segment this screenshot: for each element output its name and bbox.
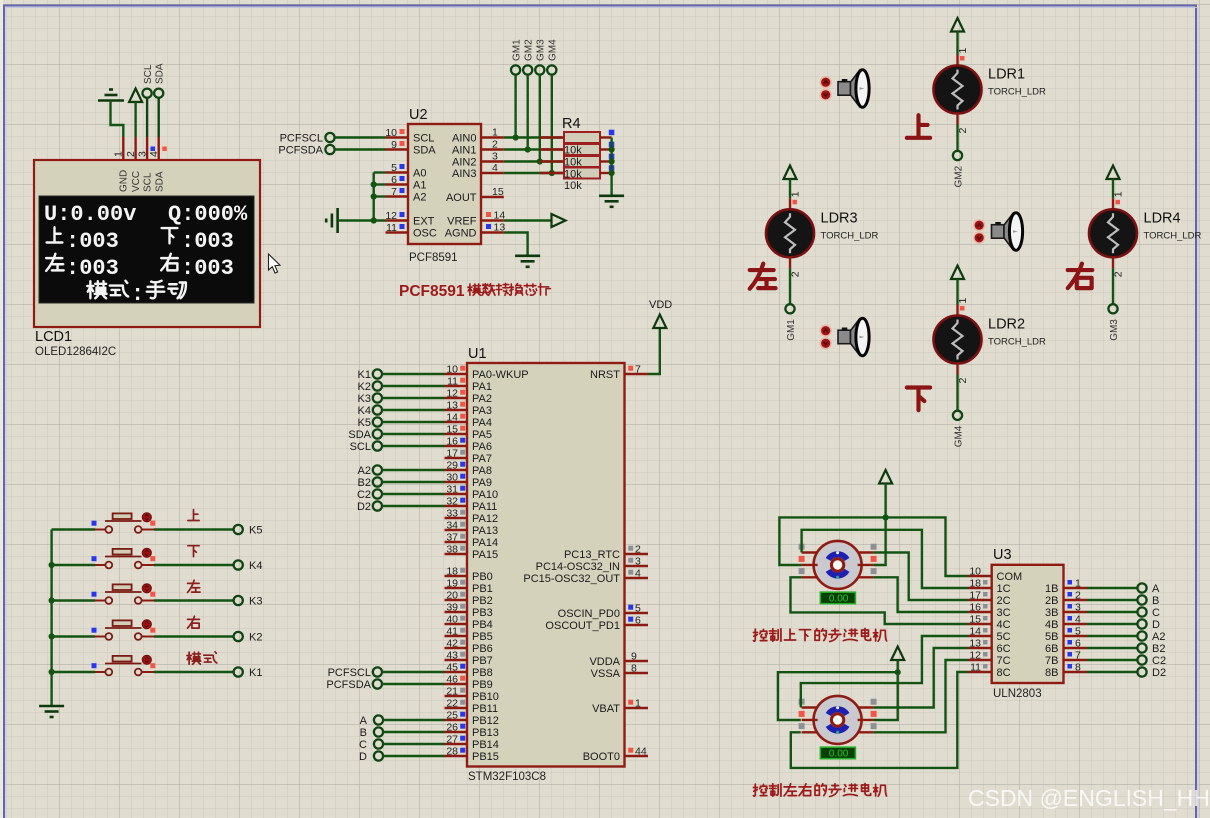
terminal B	[1137, 595, 1146, 604]
wire 4B to terminal D	[1087, 623, 1137, 625]
mouse cursor	[269, 254, 281, 273]
svg-text:19: 19	[446, 578, 458, 590]
junction bus K3	[49, 597, 55, 603]
svg-text:Q:000%: Q:000%	[168, 202, 248, 227]
svg-text:4: 4	[635, 568, 641, 580]
svg-text:15: 15	[446, 424, 458, 436]
svg-text:8: 8	[631, 663, 637, 675]
svg-text:GM2: GM2	[524, 39, 535, 61]
svg-text:TORCH_LDR: TORCH_LDR	[821, 230, 879, 241]
svg-text:1: 1	[492, 127, 498, 139]
svg-text:25: 25	[446, 710, 458, 722]
label button chinese	[188, 580, 201, 592]
svg-text:AIN1: AIN1	[452, 145, 476, 157]
svg-text:SCL: SCL	[413, 133, 434, 145]
wire vdd to LDR3	[789, 179, 791, 198]
svg-text:AIN3: AIN3	[452, 168, 476, 180]
svg-text:PA0-WKUP: PA0-WKUP	[472, 369, 529, 381]
svg-text:K3: K3	[249, 596, 262, 608]
svg-text:2: 2	[1075, 590, 1081, 602]
svg-text:30: 30	[446, 472, 458, 484]
svg-text:2: 2	[1113, 271, 1125, 277]
label button chinese	[188, 616, 200, 628]
U2 right pin stubs	[481, 136, 504, 138]
svg-text:17: 17	[446, 448, 458, 460]
wire 5B to terminal A2	[1087, 635, 1137, 637]
svg-text:B: B	[360, 727, 367, 739]
torch lens	[856, 318, 869, 356]
svg-text:PA14: PA14	[472, 537, 498, 549]
svg-text:5C: 5C	[997, 631, 1011, 643]
svg-text:AIN0: AIN0	[452, 133, 476, 145]
svg-text:B2: B2	[1152, 643, 1165, 655]
wire motor2 C to 7C	[874, 660, 968, 732]
IC U1 STM32F103C8 body	[467, 363, 625, 767]
junction A1	[371, 181, 377, 187]
torch lens	[856, 70, 869, 108]
photoresistor LDR3 body	[766, 209, 814, 257]
svg-text:0.00: 0.00	[829, 749, 849, 760]
LDR2 pin2 stub	[956, 363, 958, 375]
svg-text:K2: K2	[249, 632, 262, 644]
U3 right pin stubs	[1064, 587, 1088, 589]
wire 3B to terminal C	[1087, 611, 1137, 613]
svg-text:PCFSDA: PCFSDA	[326, 679, 371, 691]
wire motor1 C to 3C	[874, 577, 968, 612]
svg-text:PB7: PB7	[472, 655, 493, 667]
ground (U2 AGND)	[515, 256, 540, 267]
svg-text:OSCIN_PD0: OSCIN_PD0	[558, 608, 620, 620]
svg-text:18: 18	[969, 578, 981, 590]
svg-text:PB6: PB6	[472, 643, 493, 655]
svg-text::003: :003	[66, 256, 119, 281]
svg-text:5B: 5B	[1045, 631, 1058, 643]
svg-text:6C: 6C	[997, 643, 1011, 655]
svg-text::003: :003	[66, 229, 119, 254]
svg-text:LDR1: LDR1	[988, 67, 1025, 83]
svg-text:16: 16	[969, 602, 981, 614]
svg-text:21: 21	[446, 686, 458, 698]
svg-text:COM: COM	[997, 571, 1023, 583]
svg-text:11: 11	[386, 222, 397, 234]
svg-text:LCD1: LCD1	[35, 329, 72, 345]
wire vdd2 down to motor2 common right	[874, 660, 898, 720]
svg-text:6: 6	[1075, 638, 1081, 650]
terminal A	[1137, 583, 1146, 592]
svg-text:4: 4	[148, 151, 160, 157]
button K1 row	[92, 655, 156, 675]
svg-text:PA12: PA12	[472, 513, 498, 525]
svg-text:3: 3	[492, 151, 498, 163]
svg-text:A2: A2	[413, 192, 426, 204]
terminal C	[1137, 607, 1146, 616]
svg-text:U2: U2	[409, 107, 428, 123]
svg-text:PB15: PB15	[472, 751, 499, 763]
svg-text:PA3: PA3	[472, 405, 492, 417]
LCD screen text line1	[44, 202, 248, 227]
svg-text:0.00: 0.00	[829, 594, 849, 605]
terminal GM3	[1108, 304, 1117, 313]
svg-text:27: 27	[446, 734, 458, 746]
svg-text:1C: 1C	[997, 583, 1011, 595]
stepper motor body	[814, 696, 862, 744]
svg-text:12: 12	[385, 210, 397, 222]
svg-text:3: 3	[1075, 602, 1081, 614]
wire button K4 to terminal	[154, 564, 234, 566]
svg-text:6B: 6B	[1045, 643, 1058, 655]
svg-text:20: 20	[446, 590, 458, 602]
svg-text:U3: U3	[993, 547, 1012, 563]
svg-text:5: 5	[391, 162, 397, 174]
wire button common bus	[50, 530, 52, 706]
svg-text:A2: A2	[358, 465, 371, 477]
svg-text:PCF8591: PCF8591	[409, 252, 458, 264]
svg-text:2: 2	[635, 544, 641, 556]
terminal A2	[1137, 631, 1146, 640]
svg-text:SDA: SDA	[154, 171, 165, 192]
svg-text:2: 2	[790, 271, 802, 277]
svg-text:10: 10	[446, 364, 458, 376]
wire 7B to terminal C2	[1087, 659, 1137, 661]
terminal GM4	[953, 411, 962, 420]
svg-text:VCC: VCC	[131, 171, 142, 192]
svg-text:GM3: GM3	[1109, 319, 1120, 341]
svg-text:SCL: SCL	[143, 172, 154, 192]
svg-text:10k: 10k	[564, 169, 582, 181]
svg-text:7: 7	[1075, 650, 1081, 662]
svg-text:4C: 4C	[997, 619, 1011, 631]
wire button K3 left to bus	[52, 599, 95, 601]
motor pin stubs	[802, 551, 818, 553]
U1 left terminals A B C D	[374, 715, 383, 724]
svg-text:PCFSCL: PCFSCL	[328, 667, 371, 679]
svg-text:PA5: PA5	[472, 429, 492, 441]
svg-text:42: 42	[446, 638, 458, 650]
svg-text:GM1: GM1	[786, 319, 797, 341]
junction bus K1	[49, 669, 55, 675]
svg-text:SDA: SDA	[348, 429, 371, 441]
svg-text::003: :003	[181, 256, 234, 281]
svg-text:SDA: SDA	[413, 145, 436, 157]
svg-text:PB5: PB5	[472, 631, 493, 643]
svg-text:10: 10	[969, 566, 981, 578]
power VCC arrow (LCD pin 2)	[129, 89, 142, 103]
torch body	[838, 330, 851, 344]
svg-text:PB11: PB11	[472, 703, 498, 715]
svg-text:GM2: GM2	[954, 165, 965, 187]
svg-text:PA2: PA2	[472, 393, 492, 405]
svg-text:C: C	[359, 739, 367, 751]
svg-text:1: 1	[113, 151, 125, 157]
wire button K5 left to bus	[52, 528, 95, 530]
svg-text:K1: K1	[249, 667, 262, 679]
wire motor2 A to 5C	[801, 636, 968, 708]
wire button K4 left to bus	[52, 564, 95, 566]
terminal K5	[234, 525, 243, 534]
svg-text:PB3: PB3	[472, 607, 493, 619]
junction bus K2	[49, 633, 55, 639]
svg-text:11: 11	[447, 376, 458, 388]
svg-text:2B: 2B	[1045, 595, 1058, 607]
torch cone	[851, 320, 860, 355]
svg-text:45: 45	[446, 662, 458, 674]
svg-text:2C: 2C	[997, 595, 1011, 607]
wire button K3 to terminal	[154, 599, 234, 601]
motor pin squares	[799, 544, 805, 550]
svg-text:10k: 10k	[564, 145, 582, 157]
svg-text:7B: 7B	[1045, 655, 1058, 667]
svg-text:10: 10	[385, 127, 397, 139]
svg-text:3C: 3C	[997, 607, 1011, 619]
svg-text:VDD: VDD	[649, 299, 672, 311]
svg-text:GND: GND	[119, 170, 130, 192]
wire NRST to VDD	[648, 328, 660, 374]
svg-text:9: 9	[631, 651, 637, 663]
VREF default terminal arrow	[504, 219, 552, 221]
svg-text:PCFSDA: PCFSDA	[278, 145, 323, 157]
svg-text:7C: 7C	[997, 655, 1011, 667]
wire vcc to LCD pin2	[134, 102, 136, 137]
terminal PCFSDA	[325, 145, 334, 154]
svg-text:9: 9	[391, 139, 397, 151]
label button chinese	[188, 546, 199, 557]
LDR4 pin1 stub	[1112, 198, 1114, 210]
svg-text:13: 13	[446, 400, 458, 412]
wire 2B to terminal B	[1087, 599, 1137, 601]
svg-text:7: 7	[635, 364, 641, 376]
junctions GM on AIN wires	[513, 134, 519, 140]
big red label up	[907, 115, 930, 138]
svg-text:PB2: PB2	[472, 595, 493, 607]
wire motor2 D to 8C	[791, 672, 968, 768]
svg-text:PB9: PB9	[472, 679, 493, 691]
svg-text:BOOT0: BOOT0	[583, 751, 620, 763]
U1 right pin numbers and squares	[628, 366, 633, 371]
pin indicator squares (LCD pins 3,4)	[151, 147, 156, 152]
svg-text:15: 15	[492, 186, 504, 198]
svg-text:AGND: AGND	[445, 228, 477, 240]
terminal PCFSCL	[325, 133, 334, 142]
svg-text:4B: 4B	[1045, 619, 1058, 631]
svg-text:LDR3: LDR3	[821, 210, 858, 226]
svg-text:PA15: PA15	[472, 549, 498, 561]
wire PCFSDA to U2.SDA	[335, 148, 386, 150]
svg-text:13: 13	[494, 222, 506, 234]
svg-text:K5: K5	[358, 417, 371, 429]
torch body	[838, 82, 851, 96]
torch lens	[1009, 213, 1022, 251]
svg-text::: :	[131, 282, 144, 307]
svg-text:3: 3	[136, 151, 148, 157]
svg-text:OLED12864I2C: OLED12864I2C	[35, 346, 116, 358]
svg-text:C2: C2	[357, 489, 371, 501]
caption motor2 red	[753, 784, 767, 796]
svg-text:NRST: NRST	[590, 369, 620, 381]
power VDD arrow (LDR3)	[784, 166, 797, 180]
svg-text:2: 2	[125, 151, 137, 157]
photoresistor LDR2 body	[934, 316, 982, 364]
svg-text:14: 14	[446, 412, 458, 424]
svg-text:OSC: OSC	[413, 228, 437, 240]
svg-text:29: 29	[446, 460, 458, 472]
svg-text:8C: 8C	[997, 667, 1011, 679]
svg-text:GM4: GM4	[954, 425, 965, 447]
wire A0	[374, 171, 386, 173]
U1 left terminals A2 B2 C2 D2	[373, 465, 382, 474]
svg-text:AIN2: AIN2	[452, 157, 476, 169]
LDR3 pin2 stub	[789, 256, 791, 268]
motor pin stubs	[802, 706, 818, 708]
caption motor1 red	[753, 629, 767, 641]
terminal K1	[234, 667, 243, 676]
wire vdd to LDR4	[1112, 179, 1114, 198]
button K5 row	[92, 513, 156, 533]
U3 right pin numbers	[1068, 580, 1073, 585]
wire A0-A2 bus vertical	[373, 173, 375, 221]
wires AIN0-AIN3 to R4	[504, 136, 564, 138]
svg-text:PB0: PB0	[472, 571, 493, 583]
svg-text:14: 14	[969, 626, 981, 638]
svg-text:12: 12	[969, 650, 981, 662]
svg-text:U1: U1	[468, 346, 487, 362]
svg-text:AOUT: AOUT	[446, 192, 477, 204]
power VDD arrow (LDR1)	[951, 18, 964, 32]
svg-text:2: 2	[492, 139, 498, 151]
terminal GM1	[785, 304, 794, 313]
svg-text:1: 1	[1113, 191, 1125, 197]
terminals GM1-GM4 top	[511, 65, 520, 74]
R4 pin squares	[609, 130, 615, 136]
svg-text:17: 17	[969, 590, 981, 602]
svg-text:VBAT: VBAT	[592, 703, 620, 715]
svg-text:PA8: PA8	[472, 465, 492, 477]
resistor R4 elements	[540, 136, 564, 138]
wire R4 commons to ground	[610, 138, 612, 196]
wire vdd to LDR1	[956, 32, 958, 55]
wire motor2 common left	[778, 672, 898, 720]
wire SCL terminal to LCD pin3	[146, 98, 148, 137]
svg-text:1: 1	[957, 48, 969, 54]
svg-text:16: 16	[446, 436, 458, 448]
svg-text:D: D	[1152, 619, 1160, 631]
svg-text:PB8: PB8	[472, 667, 493, 679]
junction vdd2	[895, 669, 901, 675]
U1 right pin stubs	[625, 373, 649, 375]
svg-text:PA6: PA6	[472, 441, 492, 453]
wire vdd to LDR2	[956, 279, 958, 305]
svg-text:1B: 1B	[1045, 583, 1058, 595]
svg-text:37: 37	[446, 532, 458, 544]
svg-text:K1: K1	[358, 369, 371, 381]
U1 left terminals PCFSCL PCFSDA	[373, 667, 382, 676]
terminal D	[1137, 619, 1146, 628]
wire motor1 A to 1C	[802, 530, 968, 588]
svg-text:GM1: GM1	[511, 39, 522, 61]
ground (LCD pin 1)	[98, 90, 124, 101]
svg-text:R4: R4	[562, 116, 581, 132]
svg-text:PB4: PB4	[472, 619, 493, 631]
svg-text:VREF: VREF	[447, 216, 477, 228]
power VDD arrow (NRST)	[653, 315, 666, 329]
svg-text:15: 15	[969, 614, 981, 626]
svg-text:K3: K3	[358, 393, 371, 405]
svg-text:D2: D2	[1152, 667, 1166, 679]
svg-text:31: 31	[446, 484, 458, 496]
wire A1	[374, 183, 386, 185]
svg-text:K2: K2	[358, 381, 371, 393]
svg-text:11: 11	[970, 662, 981, 674]
torch actuator arrows	[974, 220, 985, 231]
svg-text:PA11: PA11	[472, 501, 497, 513]
LDR2 pin1 stub	[956, 305, 958, 317]
svg-text:26: 26	[446, 722, 458, 734]
svg-text:SCL: SCL	[350, 441, 371, 453]
svg-text:2: 2	[957, 378, 969, 384]
svg-text:4: 4	[492, 162, 498, 174]
svg-text:6: 6	[635, 615, 641, 627]
svg-text:7: 7	[391, 186, 397, 198]
svg-text:28: 28	[446, 746, 458, 758]
svg-text:10k: 10k	[564, 180, 582, 192]
svg-text:44: 44	[635, 746, 647, 758]
motor rpm display	[820, 747, 855, 759]
wire button K5 to terminal	[154, 528, 234, 530]
torch actuator arrows	[820, 325, 831, 336]
svg-text:4: 4	[1075, 614, 1081, 626]
U2 left pin stubs	[386, 136, 409, 138]
svg-text:40: 40	[446, 614, 458, 626]
svg-text:6: 6	[391, 174, 397, 186]
svg-text:38: 38	[446, 544, 458, 556]
big red label left	[750, 264, 776, 289]
U1 left pin stubs	[445, 373, 468, 375]
wire motor1 common left to COM	[779, 517, 968, 576]
svg-text:PB13: PB13	[472, 727, 499, 739]
LCD screen	[39, 196, 254, 303]
svg-text:PC13_RTC: PC13_RTC	[564, 549, 620, 561]
svg-text:LDR2: LDR2	[988, 317, 1025, 333]
torch actuator arrows	[820, 77, 831, 88]
wire LDR3 to GM1	[789, 268, 791, 304]
wire button K2 left to bus	[52, 635, 95, 637]
svg-text:K4: K4	[249, 560, 262, 572]
wire A2	[374, 195, 386, 197]
power VDD arrow (LDR4)	[1107, 166, 1120, 180]
photoresistor LDR1 body	[934, 66, 982, 114]
wire SDA terminal to LCD pin4	[157, 98, 159, 137]
svg-text:PA13: PA13	[472, 525, 498, 537]
svg-text:43: 43	[446, 650, 458, 662]
LCD pin stubs 1-4	[122, 137, 124, 160]
svg-text:1: 1	[790, 191, 802, 197]
svg-text:PA9: PA9	[472, 477, 492, 489]
svg-text:3B: 3B	[1045, 607, 1058, 619]
terminal B2	[1137, 643, 1146, 652]
power VDD arrow (LDR2)	[951, 266, 964, 280]
svg-text:GM4: GM4	[548, 39, 559, 61]
svg-text:5: 5	[635, 603, 641, 615]
photoresistor LDR4 body	[1089, 209, 1137, 257]
button K2 row	[92, 620, 156, 640]
svg-text:32: 32	[446, 496, 458, 508]
torch cone	[851, 71, 860, 106]
svg-text:OSCOUT_PD1: OSCOUT_PD1	[545, 620, 620, 632]
LCD screen text line4	[87, 281, 106, 298]
wire vdd1 down to motor1 common right	[874, 484, 886, 566]
svg-text:22: 22	[446, 698, 458, 710]
LCD screen text line2	[47, 227, 63, 242]
torch cone	[1004, 214, 1013, 249]
